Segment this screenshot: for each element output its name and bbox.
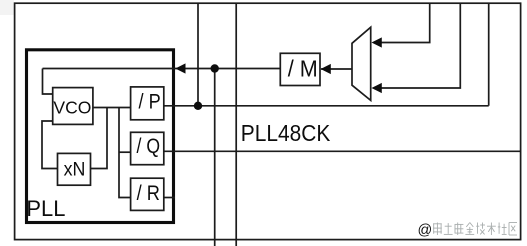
- arrowhead mux bottom input: [372, 83, 382, 93]
- wire: vertical from M-line down past bottom frame: [214, 69, 216, 246]
- wire: mux output to /M: [321, 68, 352, 70]
- multiplier xN: [58, 153, 91, 185]
- arrowhead into /M: [321, 64, 331, 74]
- wire: /P output long line to right vertical: [164, 105, 489, 107]
- wire: right vertical to top: [488, 3, 490, 106]
- wire: mux top input: [382, 3, 430, 42]
- svg-text:PLL: PLL: [26, 196, 65, 221]
- divider /M: [280, 53, 320, 85]
- PLL box: [27, 50, 174, 223]
- wire: VCO output to /P: [93, 107, 131, 109]
- watermark: [418, 223, 518, 239]
- wire: /M output to PLL (reference clock): [43, 68, 281, 70]
- wire: xN input from VCO output line: [91, 108, 108, 169]
- mux (clock source select): [352, 27, 371, 100]
- svg-text:/ P: / P: [139, 90, 161, 114]
- divider /Q: [131, 132, 164, 164]
- wire: long vertical through whole image: [235, 3, 237, 246]
- junction dot on /P output: [194, 102, 202, 110]
- wire: /R output stub: [164, 197, 175, 199]
- svg-text:/ M: / M: [288, 56, 318, 82]
- wire: down to VCO upper input: [43, 69, 54, 95]
- arrowhead mux top input: [372, 37, 382, 47]
- wire: VCO lower input from xN output: [42, 121, 58, 169]
- wire: stub into /Q: [119, 151, 131, 153]
- svg-text:xN: xN: [64, 159, 86, 181]
- divider /R: [131, 178, 164, 210]
- VCO: [53, 88, 93, 125]
- svg-text:@: @: [418, 223, 433, 239]
- svg-text:/ R: / R: [137, 181, 160, 205]
- wire: vertical from top frame to /P output line: [197, 3, 199, 106]
- svg-text:VCO: VCO: [53, 97, 91, 117]
- divider /P: [131, 87, 164, 120]
- wire: branch down to /Q and /R: [119, 108, 131, 198]
- arrowhead into PLL box: [175, 63, 185, 73]
- wire: mux bottom input: [382, 3, 461, 88]
- wire: /Q output PLL48CK line: [164, 150, 521, 152]
- junction dot on M-line: [211, 64, 219, 72]
- svg-text:PLL48CK: PLL48CK: [241, 120, 331, 146]
- svg-text:/ Q: / Q: [137, 134, 161, 158]
